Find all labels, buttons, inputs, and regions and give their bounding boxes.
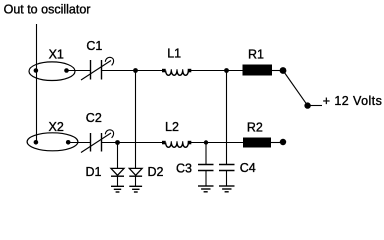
svg-text:C1: C1 — [86, 39, 102, 53]
svg-text:+ 12 Volts: + 12 Volts — [323, 94, 382, 108]
svg-text:C3: C3 — [176, 161, 192, 175]
svg-text:D2: D2 — [148, 165, 164, 179]
svg-text:R1: R1 — [248, 47, 264, 61]
svg-text:D1: D1 — [86, 165, 102, 179]
svg-text:X2: X2 — [49, 120, 64, 134]
svg-text:R2: R2 — [247, 121, 263, 135]
svg-text:X1: X1 — [49, 47, 64, 61]
svg-text:C2: C2 — [86, 111, 102, 125]
svg-text:L2: L2 — [165, 120, 179, 134]
svg-text:C4: C4 — [240, 161, 256, 175]
svg-text:Out to oscillator: Out to oscillator — [4, 2, 91, 16]
svg-text:L1: L1 — [167, 47, 181, 61]
